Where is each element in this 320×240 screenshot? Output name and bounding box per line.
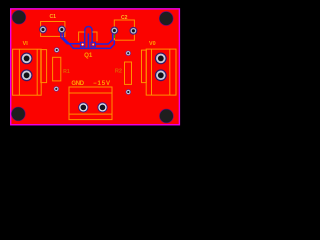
capacitor C1 outline [41, 22, 65, 37]
capacitor C2 pad 1 [110, 27, 118, 35]
transistor Q1 silk outline [79, 32, 97, 41]
mounting hole bottom-left [11, 107, 25, 121]
svg-text:VI: VI [23, 41, 29, 47]
wire: Q1 right pad to C2 left pad [93, 31, 112, 44]
connector V0 outline [146, 49, 176, 95]
mounting hole top-right [159, 12, 173, 26]
connector J1 pad 2 [97, 102, 107, 112]
svg-text:Q1: Q1 [84, 52, 93, 59]
resistor R1 outline [53, 57, 61, 81]
capacitor C1 pad 1 [39, 26, 47, 34]
svg-text:C2: C2 [121, 15, 128, 21]
via A below C1 [54, 47, 59, 52]
wire: Q1 center pin stub down to lower trace [87, 34, 89, 48]
wire: C1 right pad down-diagonal to Q1 left pad (upper trace) [61, 31, 82, 44]
connector VI pad 1 [21, 53, 33, 65]
green overlay segment under C2 left pad [114, 33, 116, 38]
via B below C2 [126, 51, 131, 56]
svg-text:V0: V0 [149, 41, 156, 47]
transistor Q1 left pad [80, 42, 84, 46]
wire: C1 right pad lower trace across under Q1 to C2 left pad [63, 32, 114, 49]
svg-text:R1: R1 [63, 69, 70, 75]
connector VI outline [13, 49, 42, 95]
mounting hole top-left [12, 10, 26, 24]
transistor Q1 right pad [91, 42, 95, 46]
unlabeled component outline left of R1 [41, 50, 47, 83]
capacitor C2 outline [114, 20, 134, 40]
resistor R2 outline [125, 62, 132, 84]
via D below R2 [126, 89, 131, 94]
mounting hole bottom-right [160, 109, 174, 123]
via C below R1 [54, 86, 59, 91]
connector J1 pad 1 [78, 102, 88, 112]
svg-text:GND: GND [71, 81, 84, 87]
board copper pour (red) [10, 8, 180, 125]
svg-text:R2: R2 [115, 69, 122, 75]
connector V0 pad 1 [155, 53, 167, 65]
keepout border [11, 9, 180, 125]
connector VI pad 2 [21, 69, 33, 81]
unlabeled component outline left of V0 [142, 50, 147, 83]
capacitor C2 pad 2 [129, 27, 137, 35]
wire: Q1 dome arc trace over center [85, 27, 93, 45]
svg-text:−15V: −15V [93, 81, 111, 87]
connector J1 (GND / -15V) outline [69, 87, 112, 120]
connector V0 pad 2 [155, 69, 167, 81]
capacitor C1 pad 2 [58, 26, 66, 34]
svg-text:C1: C1 [49, 14, 56, 20]
